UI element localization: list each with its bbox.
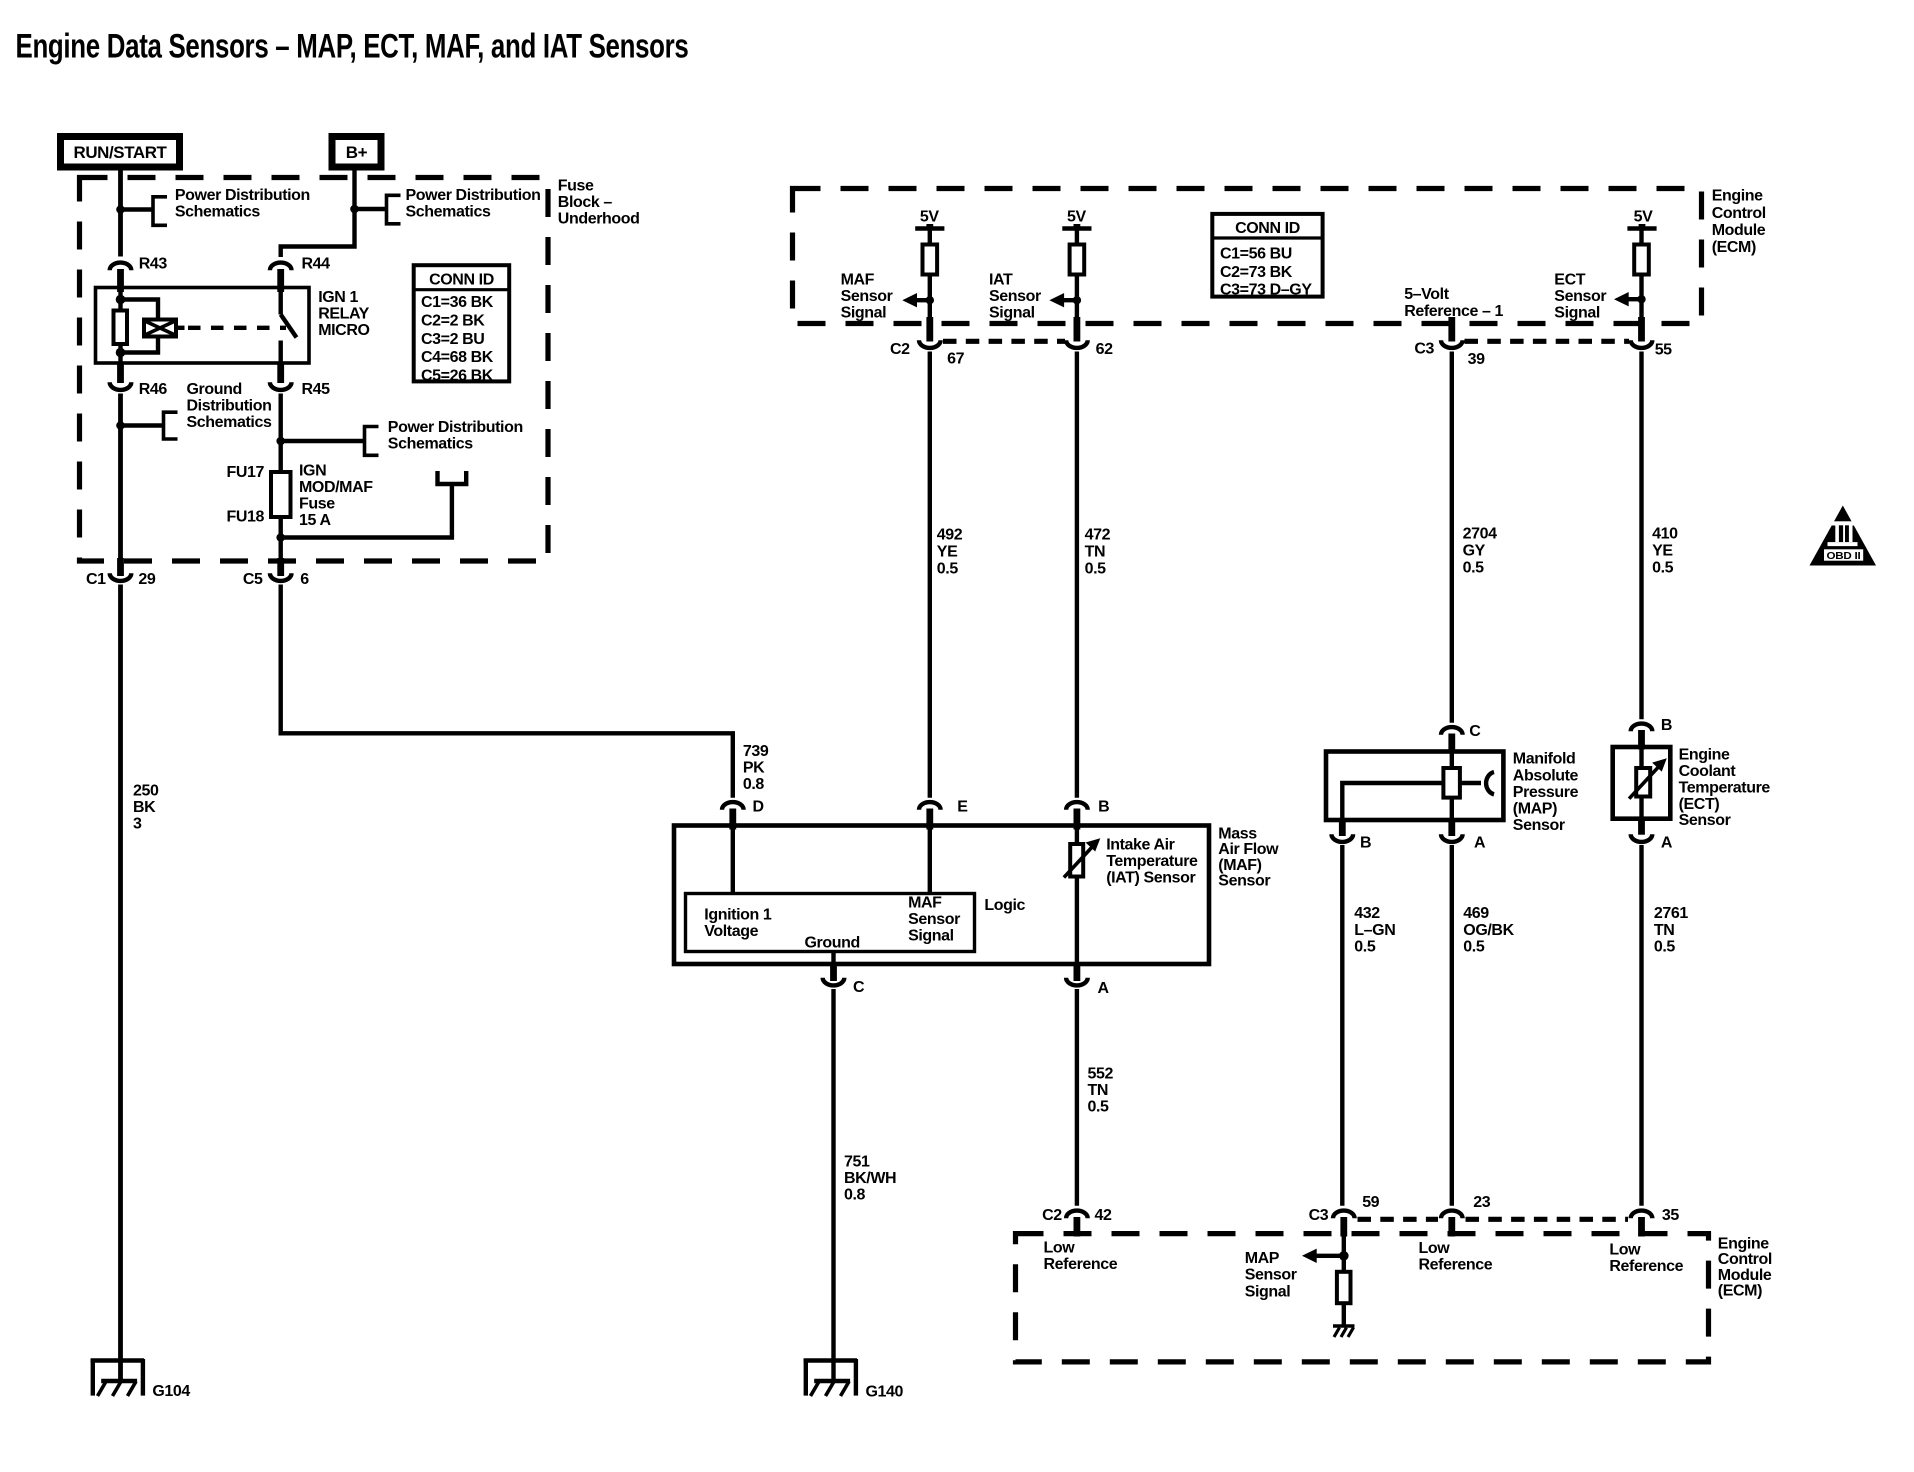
connector MAF pin B	[1066, 798, 1109, 829]
wire pin B to IAT thermistor	[1075, 828, 1079, 845]
svg-text:MAP: MAP	[1245, 1250, 1280, 1267]
svg-text:MAF: MAF	[908, 895, 942, 912]
connector pin 23	[1441, 1194, 1491, 1237]
label Low Reference (right)	[1609, 1242, 1683, 1276]
svg-text:RUN/START: RUN/START	[74, 143, 168, 162]
svg-text:Reference: Reference	[1609, 1258, 1683, 1275]
svg-text:0.8: 0.8	[844, 1186, 866, 1203]
off-page reference symbol (power distribution left)	[153, 197, 167, 226]
wire tap to power distribution (fuse)	[281, 439, 365, 443]
svg-text:492: 492	[937, 527, 963, 544]
svg-text:55: 55	[1655, 342, 1672, 359]
svg-text:ECT: ECT	[1554, 272, 1585, 289]
svg-text:B: B	[1098, 798, 1109, 815]
svg-text:GY: GY	[1463, 543, 1486, 560]
svg-text:Low: Low	[1609, 1242, 1641, 1259]
node junction on RUN/START feed	[116, 205, 125, 214]
label Ignition 1 Voltage	[704, 907, 772, 941]
svg-text:Schematics: Schematics	[388, 435, 473, 452]
svg-text:Sensor: Sensor	[841, 288, 893, 305]
svg-text:Reference: Reference	[1044, 1256, 1118, 1273]
svg-text:0.5: 0.5	[1085, 561, 1107, 578]
wire tap to ground distribution	[121, 423, 164, 427]
wire RUN/START to R43	[118, 171, 123, 257]
svg-text:250: 250	[133, 782, 159, 799]
svg-text:Fuse: Fuse	[299, 496, 335, 513]
svg-text:E: E	[957, 798, 968, 815]
wire pin A to C2/42 (circuit 552)	[1075, 989, 1079, 1206]
svg-text:C: C	[853, 979, 865, 996]
wire ECT pin A to 35 (circuit 2761)	[1639, 845, 1643, 1206]
svg-text:410: 410	[1652, 526, 1678, 543]
svg-text:MOD/MAF: MOD/MAF	[299, 479, 373, 496]
wire R45 to fuse	[279, 394, 283, 538]
svg-text:739: 739	[743, 743, 769, 760]
connector C1 pin 29	[86, 558, 156, 588]
svg-text:B+: B+	[346, 143, 368, 162]
svg-text:Manifold: Manifold	[1513, 751, 1576, 768]
node coil top junction	[116, 295, 126, 305]
connector MAF pin A	[1066, 962, 1109, 997]
svg-text:Signal: Signal	[1554, 305, 1600, 322]
svg-text:0.8: 0.8	[743, 776, 765, 793]
svg-text:Control: Control	[1712, 205, 1766, 222]
svg-text:552: 552	[1088, 1066, 1114, 1083]
svg-text:Ignition 1: Ignition 1	[704, 907, 772, 924]
relay coil solenoid symbol	[144, 320, 185, 337]
svg-text:B: B	[1360, 835, 1371, 852]
connector C3 pin 59	[1309, 1194, 1380, 1237]
svg-text:C2: C2	[890, 341, 910, 358]
MAP transducer element	[1443, 768, 1460, 798]
ground G140	[804, 1359, 904, 1401]
wire IAT thermistor to pin A	[1075, 877, 1079, 963]
wire thermistor to pin A	[1639, 797, 1643, 819]
svg-text:15 A: 15 A	[299, 512, 331, 529]
svg-text:Schematics: Schematics	[175, 204, 260, 221]
svg-text:432: 432	[1354, 905, 1380, 922]
node junction power distribution tap	[276, 437, 285, 446]
svg-text:Temperature: Temperature	[1679, 779, 1771, 796]
connector MAP pin A	[1441, 820, 1486, 852]
svg-text:Sensor: Sensor	[1218, 873, 1270, 890]
svg-text:C3: C3	[1414, 341, 1434, 358]
node junction ground distribution tap	[116, 421, 125, 430]
svg-text:BK: BK	[133, 799, 156, 816]
svg-text:Schematics: Schematics	[406, 204, 491, 221]
connector C3 pin 39	[1414, 317, 1485, 368]
svg-text:472: 472	[1085, 527, 1111, 544]
label circuit 739 PK 0.8	[743, 743, 769, 793]
svg-text:IAT: IAT	[989, 272, 1013, 289]
svg-text:Reference: Reference	[1419, 1257, 1493, 1274]
svg-text:BK/WH: BK/WH	[844, 1170, 896, 1187]
label Power Distribution Schematics (left)	[175, 187, 310, 221]
svg-text:C2=73 BK: C2=73 BK	[1220, 264, 1293, 281]
wire logic ground to pin C	[831, 952, 835, 963]
svg-text:Power Distribution: Power Distribution	[406, 187, 541, 204]
wire transducer to pin B	[1342, 783, 1443, 820]
connector dashed link 59-23	[1358, 1217, 1439, 1222]
thermistor IAT (variable resistor)	[1064, 838, 1100, 877]
wire pin D to logic box	[731, 828, 735, 894]
5V supply (ECT signal)	[1627, 209, 1656, 245]
label circuit 472 TN 0.5	[1085, 527, 1111, 578]
wire 55 to ECT pin B (circuit 410)	[1639, 352, 1643, 720]
connector R43	[110, 256, 168, 292]
5V supply (IAT signal)	[1062, 209, 1091, 245]
svg-text:5–Volt: 5–Volt	[1404, 286, 1450, 303]
label Power Distribution Schematics (fuse)	[388, 419, 523, 453]
svg-text:B: B	[1661, 717, 1672, 734]
svg-text:TN: TN	[1654, 922, 1675, 939]
ground G104	[91, 1359, 191, 1400]
svg-text:2761: 2761	[1654, 905, 1688, 922]
label circuit 469 OG/BK 0.5	[1463, 905, 1514, 955]
ECT sensor box	[1613, 747, 1671, 819]
connector C5 pin 6	[243, 558, 309, 588]
svg-text:6: 6	[300, 571, 309, 588]
svg-text:(ECT): (ECT)	[1679, 796, 1720, 813]
ECM bottom dashed box	[1016, 1234, 1709, 1362]
svg-text:Sensor: Sensor	[1513, 817, 1565, 834]
label Power Distribution Schematics (B+)	[406, 187, 541, 221]
relay switch contact (bottom)	[279, 341, 283, 364]
svg-text:Engine Data Sensors – MAP, ECT: Engine Data Sensors – MAP, ECT, MAF, and…	[16, 28, 689, 66]
resistor ECM internal (MAP signal)	[1337, 1272, 1351, 1303]
label circuit 432 L-GN 0.5	[1354, 905, 1395, 955]
svg-text:Air Flow: Air Flow	[1218, 841, 1279, 858]
svg-text:C1: C1	[86, 571, 106, 588]
svg-text:C1=36 BK: C1=36 BK	[421, 294, 494, 311]
connector C2 pin 67	[890, 317, 965, 368]
connector R45	[270, 363, 330, 398]
svg-text:Sensor: Sensor	[908, 911, 960, 928]
connector MAF pin D	[722, 798, 764, 829]
wire transducer to pressure port	[1460, 781, 1481, 785]
svg-text:Sensor: Sensor	[1554, 288, 1606, 305]
svg-text:C4=68 BK: C4=68 BK	[421, 349, 494, 366]
connector dashed link 23-35	[1466, 1217, 1629, 1222]
svg-text:A: A	[1474, 835, 1486, 852]
connector MAP pin B	[1332, 820, 1372, 852]
wire C5 to MAF pin D (circuit 739)	[281, 585, 733, 798]
svg-text:MICRO: MICRO	[318, 322, 369, 339]
svg-text:C3=2 BU: C3=2 BU	[421, 331, 484, 348]
label Intake Air Temperature (IAT) Sensor	[1106, 836, 1198, 886]
svg-text:FU17: FU17	[226, 464, 264, 481]
svg-text:62: 62	[1096, 341, 1113, 358]
svg-text:L–GN: L–GN	[1354, 922, 1395, 939]
wire MAP pin B to C3/59 (circuit 432)	[1340, 845, 1344, 1206]
svg-text:C2: C2	[1042, 1207, 1062, 1224]
svg-text:CONN ID: CONN ID	[429, 272, 494, 289]
terminal stub symbol (fuse block internal)	[438, 471, 467, 484]
svg-text:Fuse: Fuse	[558, 177, 594, 194]
label MAF Sensor Signal	[841, 272, 893, 322]
svg-text:TN: TN	[1088, 1082, 1109, 1099]
label IGN 1 RELAY MICRO	[318, 289, 369, 339]
connector pin 62	[1066, 317, 1113, 358]
svg-text:FU18: FU18	[226, 509, 264, 526]
svg-text:0.5: 0.5	[1463, 560, 1485, 577]
connector dashed link C2-62	[943, 339, 1065, 344]
svg-text:R44: R44	[302, 256, 331, 273]
svg-text:751: 751	[844, 1153, 870, 1170]
svg-text:Voltage: Voltage	[704, 923, 758, 940]
svg-text:Power Distribution: Power Distribution	[388, 419, 523, 436]
svg-text:OG/BK: OG/BK	[1463, 922, 1514, 939]
svg-text:C5: C5	[243, 571, 263, 588]
connector dashed link 39-55	[1465, 339, 1630, 344]
relay switch blade	[281, 315, 297, 338]
fuse block underhood dashed box	[80, 178, 549, 562]
connector R46	[110, 363, 168, 398]
ECM top dashed box	[793, 189, 1702, 324]
relay switch contact (top)	[279, 288, 283, 315]
node junction below fuse	[276, 533, 285, 542]
svg-text:Ground: Ground	[187, 381, 242, 398]
wire C3/39 to MAP pin C (circuit 2704)	[1450, 352, 1454, 723]
node coil bottom junction	[116, 348, 126, 358]
svg-text:Power Distribution: Power Distribution	[175, 187, 310, 204]
label Engine Coolant Temperature (ECT) Sensor	[1679, 746, 1771, 829]
wire coil loop	[121, 300, 159, 353]
svg-text:Temperature: Temperature	[1106, 853, 1198, 870]
label circuit 410 YE 0.5	[1652, 526, 1678, 577]
label circuit 552 TN 0.5	[1088, 1066, 1114, 1116]
svg-text:5V: 5V	[1067, 209, 1086, 226]
label MAF Sensor Signal (logic)	[908, 895, 960, 945]
wire pin B to thermistor	[1639, 749, 1643, 768]
OBD II symbol	[1810, 506, 1877, 566]
connector ECT pin B	[1631, 717, 1672, 750]
svg-text:OBD II: OBD II	[1827, 551, 1861, 562]
wire MAP pin A to 23 (circuit 469)	[1450, 845, 1454, 1206]
MAP sensor box	[1326, 752, 1503, 821]
svg-text:Control: Control	[1718, 1251, 1772, 1268]
svg-text:C3=73 D–GY: C3=73 D–GY	[1220, 282, 1312, 299]
svg-text:67: 67	[947, 351, 964, 368]
wire pin E to logic box	[928, 828, 932, 894]
label ECT Sensor Signal	[1554, 272, 1606, 322]
off-page reference symbol (power distribution fuse)	[365, 427, 379, 456]
svg-text:YE: YE	[1652, 543, 1673, 560]
svg-text:Signal: Signal	[908, 928, 954, 945]
svg-text:(ECM): (ECM)	[1718, 1283, 1762, 1300]
wire tap to power distribution (left)	[121, 207, 154, 211]
svg-text:Mass: Mass	[1218, 825, 1257, 842]
svg-text:TN: TN	[1085, 544, 1106, 561]
svg-text:0.5: 0.5	[1088, 1099, 1110, 1116]
label circuit 2761 TN 0.5	[1654, 905, 1688, 955]
label circuit 751 BK/WH 0.8	[844, 1153, 896, 1203]
signal arrow IAT Sensor Signal	[1049, 293, 1081, 307]
svg-text:Engine: Engine	[1718, 1235, 1769, 1252]
MAP pressure port symbol	[1486, 772, 1494, 794]
label 5-Volt Reference - 1	[1404, 286, 1503, 320]
svg-text:Sensor: Sensor	[1245, 1267, 1297, 1284]
svg-text:(IAT) Sensor: (IAT) Sensor	[1106, 869, 1195, 886]
svg-text:RELAY: RELAY	[318, 306, 369, 323]
svg-text:Underhood: Underhood	[558, 211, 640, 228]
wire pin C into transducer	[1450, 753, 1454, 768]
svg-text:35: 35	[1662, 1207, 1679, 1224]
svg-text:0.5: 0.5	[1652, 560, 1674, 577]
svg-text:Low: Low	[1044, 1240, 1076, 1257]
svg-text:2704: 2704	[1463, 526, 1497, 543]
svg-text:23: 23	[1473, 1194, 1490, 1211]
svg-text:Signal: Signal	[841, 305, 887, 322]
svg-text:YE: YE	[937, 544, 958, 561]
label Fuse Block Underhood	[558, 177, 640, 227]
svg-text:C2=2 BK: C2=2 BK	[421, 313, 485, 330]
connector MAF pin E	[919, 798, 968, 829]
svg-text:Sensor: Sensor	[989, 288, 1041, 305]
CONN ID table (fuse block)	[414, 265, 510, 384]
svg-text:D: D	[753, 798, 764, 815]
svg-text:Absolute: Absolute	[1513, 768, 1579, 785]
svg-text:Engine: Engine	[1712, 188, 1763, 205]
signal arrow ECT Sensor Signal	[1614, 292, 1646, 306]
wire tap to power distribution (B+)	[355, 207, 387, 211]
wire C2/67 to MAF pin E (circuit 492)	[928, 352, 932, 798]
svg-text:39: 39	[1468, 351, 1485, 368]
power node RUN/START	[61, 137, 180, 168]
svg-text:C1=56 BU: C1=56 BU	[1220, 246, 1292, 263]
svg-text:29: 29	[138, 571, 155, 588]
svg-text:C3: C3	[1309, 1207, 1329, 1224]
signal arrow MAP Sensor Signal	[1302, 1249, 1349, 1263]
label Manifold Absolute Pressure (MAP) Sensor	[1513, 751, 1579, 834]
wire resistor to C2 connector	[928, 275, 932, 326]
svg-text:Pressure: Pressure	[1513, 784, 1579, 801]
svg-text:(MAF): (MAF)	[1218, 857, 1261, 874]
wire resistor to 62 connector	[1075, 275, 1079, 326]
wire pin C to G140 (circuit 751)	[831, 989, 835, 1380]
label Low Reference (left)	[1044, 1240, 1118, 1274]
MAF logic box	[686, 894, 975, 952]
svg-text:A: A	[1661, 835, 1673, 852]
connector MAP pin C	[1441, 723, 1481, 754]
svg-text:R46: R46	[139, 381, 168, 398]
svg-text:IGN: IGN	[299, 463, 326, 480]
wire resistor to internal ground	[1342, 1303, 1346, 1326]
label Engine Control Module (ECM) bottom	[1718, 1235, 1772, 1299]
power node B+	[332, 137, 381, 168]
label Engine Control Module (ECM) top	[1712, 188, 1766, 256]
svg-text:59: 59	[1362, 1194, 1379, 1211]
resistor ECM pull-up (IAT)	[1070, 245, 1085, 275]
svg-text:G104: G104	[152, 1383, 190, 1400]
wire resistor to 55 connector	[1639, 275, 1643, 326]
thermistor ECT (variable resistor)	[1629, 758, 1667, 798]
resistor ECM pull-up (MAF)	[923, 245, 938, 275]
signal arrow MAF Sensor Signal	[902, 293, 934, 307]
label MAP Sensor Signal	[1245, 1250, 1297, 1300]
relay K: IGN 1 RELAY MICRO box	[96, 288, 310, 364]
off-page reference symbol (power distribution B+)	[387, 195, 401, 224]
svg-text:Signal: Signal	[1245, 1283, 1291, 1300]
svg-text:Engine: Engine	[1679, 746, 1730, 763]
svg-text:PK: PK	[743, 760, 765, 777]
label Mass Air Flow (MAF) Sensor	[1218, 825, 1279, 889]
label Low Reference (middle)	[1419, 1240, 1493, 1274]
wire B+ to R44	[281, 171, 355, 258]
wire 62 to MAF pin B (circuit 472)	[1075, 352, 1079, 798]
wire C1 to G104 (circuit 250)	[118, 585, 123, 1381]
label Ground Distribution Schematics	[187, 381, 272, 431]
wire relay coil branch	[118, 290, 122, 363]
label IAT Sensor Signal	[989, 272, 1041, 322]
svg-text:5V: 5V	[920, 209, 939, 226]
svg-text:Block –: Block –	[558, 194, 613, 211]
svg-text:Logic: Logic	[984, 897, 1025, 914]
svg-text:CONN ID: CONN ID	[1235, 220, 1300, 237]
svg-text:G140: G140	[866, 1384, 904, 1401]
MAF sensor box	[674, 826, 1209, 965]
relay mechanical linkage (dashed)	[188, 326, 286, 330]
label circuit 250 BK 3	[133, 782, 159, 832]
5V supply (MAF signal)	[915, 209, 944, 245]
svg-text:Module: Module	[1718, 1267, 1772, 1284]
svg-text:0.5: 0.5	[1354, 939, 1376, 956]
svg-text:Module: Module	[1712, 222, 1766, 239]
wire transducer to pin A	[1450, 798, 1454, 820]
label circuit 2704 GY 0.5	[1463, 526, 1497, 577]
svg-text:IGN 1: IGN 1	[318, 289, 358, 306]
svg-text:Low: Low	[1419, 1240, 1451, 1257]
connector C2 pin 42	[1042, 1207, 1112, 1237]
svg-text:C: C	[1469, 723, 1481, 740]
resistor ECM pull-up (ECT)	[1634, 245, 1649, 275]
svg-text:Ground: Ground	[805, 935, 860, 952]
wire R46 to C1	[118, 394, 123, 561]
svg-text:(MAP): (MAP)	[1513, 801, 1557, 818]
connector MAF pin C	[823, 962, 865, 996]
wire fuse to C5	[279, 538, 283, 561]
off-page reference symbol (ground distribution)	[164, 412, 178, 439]
connector pin 55	[1631, 317, 1672, 359]
svg-text:R45: R45	[302, 381, 331, 398]
svg-text:0.5: 0.5	[1654, 939, 1676, 956]
label circuit 492 YE 0.5	[937, 527, 963, 578]
connector R44	[270, 256, 330, 292]
svg-text:A: A	[1098, 980, 1110, 997]
node junction on B+ feed	[350, 205, 359, 214]
wire from fuse junction to terminal stub	[281, 484, 452, 538]
svg-text:R43: R43	[139, 256, 168, 273]
svg-text:Schematics: Schematics	[187, 414, 272, 431]
ECM internal ground	[1333, 1326, 1355, 1337]
svg-text:MAF: MAF	[841, 272, 875, 289]
svg-text:0.5: 0.5	[937, 561, 959, 578]
connector pin 35	[1631, 1207, 1680, 1237]
svg-text:3: 3	[133, 815, 142, 832]
svg-text:C5=26 BK: C5=26 BK	[421, 367, 494, 384]
svg-text:42: 42	[1095, 1207, 1112, 1224]
connector ECT pin A	[1631, 819, 1673, 852]
fuse FU17/FU18 IGN MOD/MAF 15 A	[271, 472, 291, 517]
svg-text:0.5: 0.5	[1463, 939, 1485, 956]
svg-text:Intake Air: Intake Air	[1106, 836, 1174, 853]
svg-text:5V: 5V	[1634, 209, 1653, 226]
label IGN MOD/MAF Fuse 15 A	[299, 463, 373, 530]
svg-text:(ECM): (ECM)	[1712, 239, 1756, 256]
svg-text:469: 469	[1463, 905, 1489, 922]
resistor: relay coil resistance	[114, 311, 128, 345]
wire 59 stub to internal resistor	[1342, 1236, 1346, 1272]
